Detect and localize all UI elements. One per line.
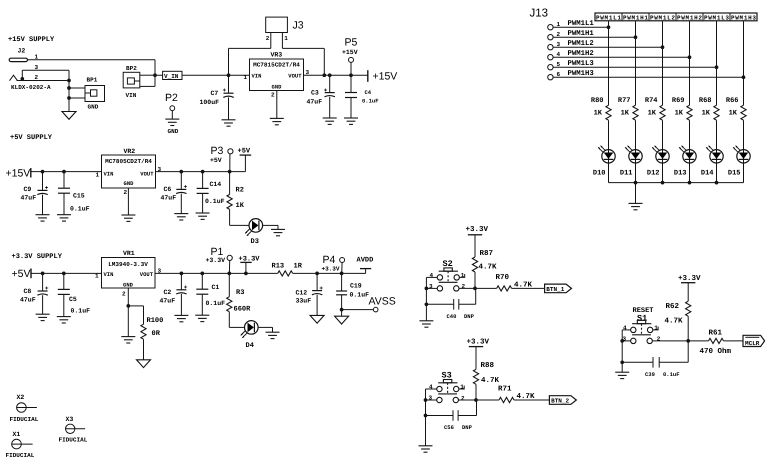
wire BP2 to node xyxy=(140,74,155,76)
wire S1 pin2 to node xyxy=(653,340,709,342)
J13 pin 3 xyxy=(548,45,553,50)
LED D10 xyxy=(598,146,615,163)
svg-text:J13: J13 xyxy=(530,8,549,20)
svg-text:X1: X1 xyxy=(13,431,21,438)
svg-text:BP1: BP1 xyxy=(87,77,98,84)
LED D12 xyxy=(652,146,669,163)
svg-text:0.1uF: 0.1uF xyxy=(663,371,680,378)
svg-text:VIN: VIN xyxy=(126,92,137,99)
capacitor C6 xyxy=(180,172,182,190)
svg-text:R2: R2 xyxy=(236,186,244,194)
svg-text:P3: P3 xyxy=(211,145,224,157)
svg-text:0.1uF: 0.1uF xyxy=(206,300,226,307)
wire S3 pin3 xyxy=(426,399,437,401)
svg-text:J2: J2 xyxy=(18,48,26,55)
J13 pin 2 xyxy=(548,35,553,40)
svg-text:+3.3V: +3.3V xyxy=(678,274,701,283)
wire column 5 xyxy=(716,21,718,105)
resistor R80 xyxy=(606,105,611,120)
svg-text:0R: 0R xyxy=(152,330,161,338)
svg-text:PWM1L1: PWM1L1 xyxy=(596,15,621,22)
wire column 3 xyxy=(662,21,664,105)
svg-text:+: + xyxy=(45,285,49,292)
svg-text:1: 1 xyxy=(35,54,39,61)
net flag MCLR xyxy=(743,335,765,346)
svg-text:D14: D14 xyxy=(701,170,714,178)
svg-text:1K: 1K xyxy=(729,110,738,118)
wire S3 left drop xyxy=(425,389,427,446)
capacitor C8 xyxy=(42,273,44,291)
svg-text:PWM1L1: PWM1L1 xyxy=(568,20,595,28)
svg-text:C15: C15 xyxy=(73,193,85,200)
wire V_IN rail xyxy=(154,60,156,75)
capacitor C15 xyxy=(63,172,65,189)
svg-text:4.7K: 4.7K xyxy=(481,377,500,385)
wire S3 pin1 stub xyxy=(459,386,464,389)
resistor R3 xyxy=(228,273,230,296)
wire S3 pin2 to node xyxy=(459,399,499,401)
wire S1 pin4 xyxy=(622,329,630,331)
node V_IN xyxy=(153,73,157,77)
wire S2 pin1 stub xyxy=(459,274,464,277)
wire input rail VR1 xyxy=(31,272,102,274)
wire column 4 xyxy=(689,21,691,105)
ground (C1) xyxy=(195,315,209,321)
svg-text:R68: R68 xyxy=(699,97,712,105)
svg-text:R88: R88 xyxy=(481,361,495,370)
svg-text:C39: C39 xyxy=(645,371,655,378)
svg-text:2: 2 xyxy=(657,336,661,343)
svg-text:PWM1L2: PWM1L2 xyxy=(568,40,594,48)
svg-text:DNP: DNP xyxy=(464,313,475,320)
svg-text:0.1uF: 0.1uF xyxy=(71,307,91,314)
ground (C9) xyxy=(36,215,50,221)
LED D15 xyxy=(733,146,750,163)
svg-text:FIDUCIAL: FIDUCIAL xyxy=(10,416,39,423)
ground (C2) xyxy=(174,315,188,321)
node J2 sleeve junction xyxy=(20,77,24,81)
svg-text:C3: C3 xyxy=(311,90,319,97)
capacitor C12 xyxy=(316,273,318,290)
svg-text:P4: P4 xyxy=(323,254,336,266)
svg-text:1: 1 xyxy=(557,21,561,28)
svg-text:C2: C2 xyxy=(164,289,172,296)
wire column 6 xyxy=(743,21,745,105)
wire input rail VR2 xyxy=(31,171,102,173)
wire R71 to BTN_2 xyxy=(514,399,549,401)
connector J3 xyxy=(266,17,288,32)
svg-text:D15: D15 xyxy=(728,170,741,178)
svg-text:PWM1H3: PWM1H3 xyxy=(731,15,756,22)
svg-text:+3.3V: +3.3V xyxy=(467,337,490,346)
wire J3 pin2 to input node xyxy=(270,33,272,49)
svg-text:2: 2 xyxy=(266,35,270,42)
svg-text:C6: C6 xyxy=(164,186,172,193)
svg-text:VOUT: VOUT xyxy=(288,73,302,80)
wire R70 to BTN_1 xyxy=(512,287,545,289)
svg-text:S2: S2 xyxy=(443,259,453,269)
wire column 1 xyxy=(608,21,610,105)
LED D14 xyxy=(706,146,723,163)
svg-text:MC7805CD2T/R4: MC7805CD2T/R4 xyxy=(105,158,152,165)
svg-text:1K: 1K xyxy=(236,202,245,210)
svg-text:R77: R77 xyxy=(618,97,631,105)
svg-text:VIN: VIN xyxy=(104,271,114,278)
svg-text:R80: R80 xyxy=(591,97,604,105)
svg-text:47uF: 47uF xyxy=(21,195,37,202)
svg-text:100uF: 100uF xyxy=(200,99,220,106)
svg-text:GND: GND xyxy=(123,282,134,289)
wire VR2 gnd pin xyxy=(127,188,129,215)
resistor R13 xyxy=(278,271,293,276)
svg-text:GND: GND xyxy=(272,83,283,90)
ground (C3) xyxy=(323,118,337,124)
svg-text:LM3940-3.3V: LM3940-3.3V xyxy=(108,261,148,268)
resistor R62 xyxy=(686,301,691,316)
svg-text:+: + xyxy=(324,87,328,94)
svg-text:660R: 660R xyxy=(234,305,252,313)
svg-text:+3.3V SUPPLY: +3.3V SUPPLY xyxy=(12,253,63,261)
svg-text:+5V: +5V xyxy=(210,157,222,164)
svg-text:+15V: +15V xyxy=(342,49,358,56)
svg-text:+3.3V: +3.3V xyxy=(322,265,340,272)
svg-text:+: + xyxy=(184,284,188,291)
svg-text:3: 3 xyxy=(557,41,561,48)
svg-text:47uF: 47uF xyxy=(307,98,323,105)
ground (S2) xyxy=(419,321,433,327)
svg-text:VIN: VIN xyxy=(104,171,114,178)
ground (C15) xyxy=(57,215,71,221)
svg-text:2: 2 xyxy=(271,92,275,99)
svg-text:1: 1 xyxy=(284,35,288,42)
svg-text:0.1uF: 0.1uF xyxy=(350,292,370,299)
resistor R71 xyxy=(499,397,514,402)
wire VR3 gnd pin xyxy=(276,91,278,119)
svg-text:S3: S3 xyxy=(442,370,452,380)
svg-text:1: 1 xyxy=(95,273,99,280)
wire D4 to ground xyxy=(258,326,272,328)
svg-text:C8: C8 xyxy=(24,288,32,295)
ground (VR1) xyxy=(121,337,135,343)
svg-text:0.1uF: 0.1uF xyxy=(205,198,225,205)
svg-text:0.1uF: 0.1uF xyxy=(362,97,379,104)
ground (VR3) xyxy=(270,118,284,124)
svg-text:PWM1H2: PWM1H2 xyxy=(568,50,594,58)
svg-text:1K: 1K xyxy=(702,110,711,118)
wire to D3 xyxy=(230,224,249,226)
svg-text:PWM1H1: PWM1H1 xyxy=(568,30,595,38)
capacitor C1 xyxy=(201,273,203,289)
svg-text:FIDUCIAL: FIDUCIAL xyxy=(6,452,35,459)
net AVSS xyxy=(342,309,374,311)
wire S3 pin4 xyxy=(426,388,437,390)
svg-text:+: + xyxy=(223,87,227,94)
svg-text:+: + xyxy=(45,184,49,191)
svg-text:PWM1L3: PWM1L3 xyxy=(568,60,595,68)
svg-text:X2: X2 xyxy=(17,394,25,401)
svg-text:MC7815CD2T/R4: MC7815CD2T/R4 xyxy=(253,62,300,69)
svg-text:+15V SUPPLY: +15V SUPPLY xyxy=(8,36,55,44)
svg-text:D13: D13 xyxy=(674,170,687,178)
ground (D4) xyxy=(266,332,280,338)
ground (LED rail) xyxy=(629,203,643,209)
svg-text:PWM1H3: PWM1H3 xyxy=(568,70,595,78)
svg-text:C40: C40 xyxy=(447,313,457,320)
ground (C14) xyxy=(196,213,210,219)
svg-text:C7: C7 xyxy=(211,90,219,97)
wire S1 pin1 stub xyxy=(653,327,658,330)
resistor R66 xyxy=(741,105,746,120)
svg-text:+3.3V: +3.3V xyxy=(206,257,226,264)
LED D13 xyxy=(679,146,696,163)
svg-text:+3.3V: +3.3V xyxy=(466,225,489,234)
ground (P2) xyxy=(165,119,179,125)
svg-text:BTN_2: BTN_2 xyxy=(551,398,569,405)
net label row PWM1L1..PWM1H3 xyxy=(595,13,757,21)
wire column 2 xyxy=(635,21,637,105)
wire to BP1 xyxy=(69,87,85,89)
svg-text:1K: 1K xyxy=(675,110,684,118)
svg-text:PWM1L3: PWM1L3 xyxy=(704,15,729,22)
svg-text:C12: C12 xyxy=(296,289,308,296)
svg-text:2: 2 xyxy=(461,395,465,402)
svg-text:4: 4 xyxy=(557,51,561,58)
svg-text:1: 1 xyxy=(96,172,100,179)
svg-text:PWM1H1: PWM1H1 xyxy=(623,15,648,22)
svg-text:MCLR: MCLR xyxy=(745,340,760,347)
svg-text:GND: GND xyxy=(168,128,179,135)
capacitor C14 xyxy=(202,172,204,189)
svg-text:BP2: BP2 xyxy=(126,65,137,72)
ground (S3) xyxy=(419,446,433,452)
svg-text:+: + xyxy=(319,285,323,292)
svg-text:47uF: 47uF xyxy=(20,296,36,303)
wire gnd drop xyxy=(68,70,70,111)
svg-text:R61: R61 xyxy=(709,328,723,337)
svg-text:R100: R100 xyxy=(147,317,164,325)
svg-text:C4: C4 xyxy=(365,89,372,96)
svg-text:D12: D12 xyxy=(647,170,660,178)
wire to D4 xyxy=(229,326,244,328)
svg-text:+: + xyxy=(184,184,188,191)
svg-text:2: 2 xyxy=(35,74,39,81)
power flag +15V output xyxy=(367,70,369,82)
wire VR3 output rail xyxy=(304,74,368,76)
svg-text:VR1: VR1 xyxy=(123,250,135,257)
svg-text:C19: C19 xyxy=(350,282,362,289)
J13 pin 6 xyxy=(548,75,553,80)
wire J2 pin3 xyxy=(21,70,23,80)
ground (R100) xyxy=(137,360,151,368)
svg-text:C14: C14 xyxy=(210,181,222,188)
svg-text:C9: C9 xyxy=(24,186,32,193)
LED D4 xyxy=(241,321,258,338)
svg-text:P1: P1 xyxy=(211,246,224,258)
svg-text:VIN: VIN xyxy=(252,73,262,80)
net flag BTN_1 xyxy=(545,284,572,293)
capacitor C4 xyxy=(350,75,352,92)
svg-text:1K: 1K xyxy=(648,110,657,118)
resistor R61 xyxy=(709,338,724,343)
svg-text:R66: R66 xyxy=(726,97,739,105)
svg-text:+5V: +5V xyxy=(238,148,251,156)
ground (C5) xyxy=(57,317,71,323)
net label V_IN xyxy=(163,71,182,79)
svg-text:33uF: 33uF xyxy=(296,298,312,305)
capacitor C5 xyxy=(63,273,65,289)
resistor R100 xyxy=(143,306,145,324)
svg-text:5: 5 xyxy=(557,61,561,68)
wire J2 pin2 xyxy=(17,80,70,82)
wire VR1 output rail xyxy=(155,272,278,274)
svg-text:PWM1L2: PWM1L2 xyxy=(650,15,675,22)
capacitor C56 xyxy=(426,415,454,417)
svg-text:2: 2 xyxy=(462,283,466,290)
svg-text:J3: J3 xyxy=(293,20,304,32)
svg-text:AVDD: AVDD xyxy=(357,256,374,264)
svg-text:4.7K: 4.7K xyxy=(479,264,498,272)
svg-text:+5V SUPPLY: +5V SUPPLY xyxy=(10,134,53,142)
capacitor C19 xyxy=(341,273,343,291)
svg-text:R70: R70 xyxy=(496,273,510,282)
ground (J2) xyxy=(62,112,76,120)
J13 pin 1 xyxy=(548,25,553,30)
svg-text:R87: R87 xyxy=(480,249,494,258)
LED D11 xyxy=(625,146,642,163)
resistor R88 xyxy=(473,369,478,384)
svg-text:P2: P2 xyxy=(165,92,178,104)
wire S1 left drop xyxy=(621,330,623,372)
LED D3 xyxy=(245,219,262,236)
resistor R68 xyxy=(714,105,719,120)
wire S1 pin3 xyxy=(622,340,630,342)
svg-text:X3: X3 xyxy=(66,416,74,423)
svg-text:VR2: VR2 xyxy=(124,148,136,155)
ground (C7) xyxy=(222,120,236,126)
wire J2 pin1 xyxy=(28,59,156,61)
wire J3 pin1 to output node xyxy=(281,33,283,49)
ground (C8) xyxy=(36,314,50,320)
ground (C12 analog) xyxy=(310,315,324,323)
resistor R70 xyxy=(497,286,512,291)
J13 pin 5 xyxy=(548,65,553,70)
svg-text:P5: P5 xyxy=(345,37,358,49)
wire VR2 output rail xyxy=(156,171,246,173)
svg-text:C56: C56 xyxy=(444,424,454,431)
ground (C6) xyxy=(174,214,188,220)
capacitor C7 xyxy=(227,73,231,77)
svg-text:1K: 1K xyxy=(621,110,630,118)
wire R13 to AVDD xyxy=(293,272,366,274)
svg-text:VOUT: VOUT xyxy=(140,171,154,178)
ground (S1) xyxy=(615,372,629,378)
wire rail to ground xyxy=(635,183,637,204)
svg-text:VOUT: VOUT xyxy=(140,271,154,278)
svg-text:3: 3 xyxy=(35,64,39,71)
svg-text:+15V: +15V xyxy=(373,71,398,83)
wire S2 pin2 to node xyxy=(459,287,496,289)
svg-text:1R: 1R xyxy=(294,262,303,270)
svg-text:2: 2 xyxy=(557,31,561,38)
svg-text:BTN_1: BTN_1 xyxy=(546,286,564,293)
svg-text:4.7K: 4.7K xyxy=(665,317,684,325)
wire to R100 xyxy=(128,305,143,307)
ground (C4) xyxy=(344,118,358,124)
net flag BTN_2 xyxy=(549,396,576,405)
svg-text:R74: R74 xyxy=(645,97,658,105)
svg-text:FIDUCIAL: FIDUCIAL xyxy=(59,437,88,444)
svg-text:R3: R3 xyxy=(236,289,244,297)
svg-text:C1: C1 xyxy=(212,284,220,291)
svg-text:D4: D4 xyxy=(246,342,254,350)
svg-text:1: 1 xyxy=(244,74,248,81)
ground (C19 analog) xyxy=(335,316,349,324)
svg-text:2: 2 xyxy=(122,291,126,298)
svg-text:0.1uF: 0.1uF xyxy=(70,206,90,213)
resistor R74 xyxy=(660,105,665,120)
svg-text:C5: C5 xyxy=(69,296,77,303)
resistor R87 xyxy=(472,257,477,272)
svg-text:R69: R69 xyxy=(672,97,685,105)
svg-text:6: 6 xyxy=(557,71,561,78)
J13 pin 4 xyxy=(548,55,553,60)
svg-text:R71: R71 xyxy=(498,386,512,394)
wire R61 to MCLR xyxy=(724,340,744,342)
svg-text:R62: R62 xyxy=(666,302,680,311)
wire S2 left drop xyxy=(425,277,427,320)
svg-text:V_IN: V_IN xyxy=(164,73,179,80)
svg-text:+5V: +5V xyxy=(12,268,31,280)
svg-text:R13: R13 xyxy=(272,262,285,270)
resistor R77 xyxy=(633,105,638,120)
capacitor C9 xyxy=(42,172,44,191)
resistor R2 xyxy=(229,172,231,195)
svg-text:+15V: +15V xyxy=(6,168,31,180)
wire LED common rail xyxy=(609,182,744,184)
svg-text:KLDX-0202-A: KLDX-0202-A xyxy=(11,84,51,91)
capacitor C2 xyxy=(180,273,182,289)
svg-text:47uF: 47uF xyxy=(160,298,176,305)
wire S2 pin4 xyxy=(426,276,437,278)
wire S2 pin3 xyxy=(426,287,437,289)
svg-text:1K: 1K xyxy=(594,110,603,118)
wire VR1 gnd pin xyxy=(127,288,129,337)
svg-text:PWM1H2: PWM1H2 xyxy=(677,15,702,22)
svg-text:47uF: 47uF xyxy=(161,195,177,202)
svg-text:GND: GND xyxy=(124,180,135,187)
svg-text:D10: D10 xyxy=(593,170,606,178)
capacitor C40 xyxy=(426,303,453,305)
ground (D3) xyxy=(271,229,285,235)
wire D3 to ground xyxy=(263,224,278,226)
svg-text:AVSS: AVSS xyxy=(369,296,396,308)
capacitor C39 xyxy=(622,361,653,363)
resistor R69 xyxy=(687,105,692,120)
svg-text:VR3: VR3 xyxy=(271,52,283,59)
svg-text:D11: D11 xyxy=(620,170,633,178)
svg-text:DNP: DNP xyxy=(462,424,473,431)
ground (VR2) xyxy=(121,215,135,221)
capacitor C3 xyxy=(328,73,332,77)
svg-text:GND: GND xyxy=(88,104,99,111)
svg-text:D3: D3 xyxy=(251,238,259,246)
svg-text:470 Ohm: 470 Ohm xyxy=(700,347,732,356)
svg-text:2: 2 xyxy=(124,189,128,196)
